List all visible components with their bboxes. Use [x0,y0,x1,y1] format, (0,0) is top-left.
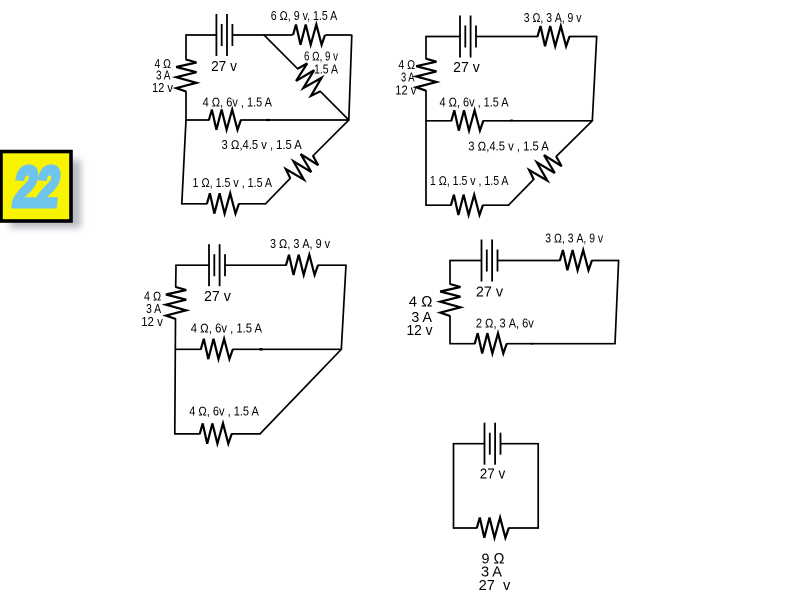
wire: c2 bottom left [426,204,451,206]
resistor c2 diagonal 3ohm [527,150,564,187]
wire: c3 middle left [175,348,200,350]
svg-text:3 A: 3 A [401,71,415,85]
wire: c3 top right segment [318,264,346,266]
resistor c2 middle 4ohm [451,110,483,130]
wire: c2 top-left segment [426,36,460,38]
svg-text:27 v: 27 v [211,58,237,75]
wire: c4 bottom right [507,343,615,345]
wire: c1 diag lower a [313,120,349,156]
svg-text:3 Ω,4.5 v , 1.5 A: 3 Ω,4.5 v , 1.5 A [222,138,303,152]
svg-text:12 v: 12 v [407,322,433,339]
wire: c1 top right segment [326,34,351,36]
wire: c4 left vertical top [449,261,451,285]
svg-text:12 v: 12 v [395,84,417,98]
svg-text:27 v: 27 v [204,288,231,305]
resistor c1 diagonal 6ohm [291,61,328,98]
svg-text:12 v: 12 v [141,315,163,329]
wire: c4 right vertical [615,261,619,344]
resistor c3 top 3ohm [286,255,318,275]
wire: c5 bottom right [509,527,538,529]
wire: c2 diag b [509,179,534,205]
junction dot c4 bottom wire [530,343,534,345]
resistor c2 bottom 1ohm [451,195,483,215]
wire: c2 top mid segment [476,36,538,38]
svg-text:4 Ω, 6v , 1.5 A: 4 Ω, 6v , 1.5 A [440,96,510,110]
svg-text:12 v: 12 v [152,81,174,95]
svg-text:4 Ω, 6v , 1.5 A: 4 Ω, 6v , 1.5 A [191,321,263,335]
resistor c3 left 4ohm [166,287,186,319]
resistor c1 diagonal 3ohm [283,149,320,186]
wire: c2 left vertical top [425,37,427,59]
wire: c1 diag upper a [264,35,298,69]
wire: c3 diagonal (no resistor) [260,349,341,434]
resistor c4 top 3ohm [560,250,592,270]
wire: c4 bottom left [450,343,475,345]
wire: c1 diag lower b [266,178,291,203]
wire: c2 top right segment [570,36,597,38]
wire: c4 top mid segment [498,260,560,262]
wire: c2 middle right [483,120,592,122]
wire: c1 right vertical [349,35,352,120]
svg-text:4 Ω, 6v , 1.5 A: 4 Ω, 6v , 1.5 A [203,95,273,109]
svg-text:1.5 A: 1.5 A [314,62,339,76]
battery B3 (circuit 3, 27 v) [209,244,225,286]
badge box [1,152,71,222]
battery B1 (circuit 1, 27 v) [216,14,232,56]
wire: c1 lower-left vertical [182,120,186,204]
svg-text:27 v: 27 v [479,577,511,594]
wire: c5 bottom left [454,527,477,529]
junction dot c2 middle wire [509,120,513,122]
resistor c4 bottom 2ohm [475,333,507,353]
svg-text:3 Ω, 3 A, 9 v: 3 Ω, 3 A, 9 v [545,232,603,246]
wire: c3 right vertical [341,265,346,349]
resistor c1 top 6ohm [293,25,325,45]
wire: c4 top right segment [592,260,619,262]
wire: c3 top-left segment [176,264,209,266]
wire: c2 middle left [426,120,451,122]
wire: c3 bottom left [175,433,200,435]
svg-text:4 Ω: 4 Ω [409,294,433,311]
wire: c3 top mid segment [225,264,286,266]
wire: c5 left vertical [453,444,455,528]
resistor c2 top 3ohm [538,26,570,46]
wire: c2 diag a [556,121,592,157]
battery B2 (circuit 2, 27 v) [460,16,476,58]
svg-text:4 Ω, 6v , 1.5 A: 4 Ω, 6v , 1.5 A [189,405,259,419]
wire: c2 right vertical [592,37,596,121]
wire: c1 left vertical bottom [185,92,187,121]
wire: c5 top right segment [501,443,539,445]
junction dot c3 middle wire [258,348,264,351]
wire: c1 middle left [186,119,209,121]
resistor c2 left 4ohm [416,59,436,91]
svg-text:22: 22 [10,157,64,219]
wire: c3 middle right [233,348,341,350]
svg-text:1 Ω, 1.5 v , 1.5 A: 1 Ω, 1.5 v , 1.5 A [193,176,273,190]
wire: c2 left vertical bottom [425,91,427,206]
wire: c3 left vertical bottom [174,319,177,434]
wire: c1 left vertical top [185,35,187,60]
svg-text:27 v: 27 v [453,59,480,76]
resistor c1 left 4ohm [176,60,196,92]
wire: c2 bottom right [483,204,509,206]
resistor c4 left 4ohm [440,284,460,316]
wire: c1 middle right [241,119,349,121]
svg-text:2 Ω, 3 A, 6v: 2 Ω, 3 A, 6v [476,317,535,331]
svg-text:3 Ω,4.5 v , 1.5 A: 3 Ω,4.5 v , 1.5 A [468,140,549,154]
wire: c1 bottom left [182,203,207,205]
battery B5 (circuit 5, 27 v) [485,423,501,465]
wire: c4 left vertical bottom [449,316,451,344]
wire: c5 right vertical [537,444,539,528]
wire: c1 top mid segment (battery to R1) [232,34,292,36]
wire: c3 bottom right [232,433,260,435]
wire: c5 top-left segment [454,443,485,445]
resistor c3 bottom 4ohm [200,423,232,443]
svg-text:3 Ω, 3 A, 9 v: 3 Ω, 3 A, 9 v [270,237,331,251]
wire: c3 left vertical top [175,265,177,287]
wire: c1 top-left segment [186,34,216,36]
svg-text:1 Ω, 1.5 v , 1.5 A: 1 Ω, 1.5 v , 1.5 A [430,174,509,188]
wire: c1 diag upper b [320,91,349,120]
badge shadow [10,160,81,228]
svg-text:6 Ω, 9 v, 1.5 A: 6 Ω, 9 v, 1.5 A [271,9,338,23]
resistor c1 bottom 1ohm [207,193,239,213]
resistor c3 middle 4ohm [201,339,233,359]
wire: c1 bottom right [239,203,266,205]
resistor c1 middle 4ohm [209,110,241,130]
battery B4 (circuit 4, 27 v) [482,240,498,282]
resistor c5 bottom 9ohm [477,518,509,538]
junction dot c1 middle wire [265,119,271,122]
svg-text:27 v: 27 v [480,465,506,482]
svg-text:3 Ω, 3 A, 9 v: 3 Ω, 3 A, 9 v [524,11,582,25]
svg-text:27 v: 27 v [476,284,504,301]
wire: c4 top-left segment [450,260,482,262]
